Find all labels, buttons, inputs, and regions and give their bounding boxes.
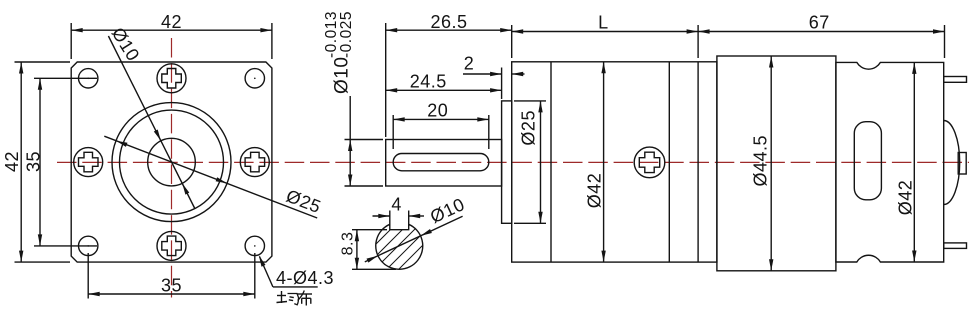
flange screw 1 <box>157 64 186 93</box>
gearbox screw <box>634 147 665 178</box>
svg-text:42: 42 <box>161 12 182 32</box>
dim D10tol text <box>323 11 355 94</box>
centerline horizontal main <box>57 161 969 163</box>
dim 67 arrows <box>698 29 710 33</box>
end cap dome <box>944 121 960 205</box>
dim D10 arrows <box>154 130 161 141</box>
dim 42 top extension lines <box>70 23 72 59</box>
dim 26.5 arrows <box>386 28 398 32</box>
dim D44.5 line <box>770 56 772 271</box>
dim 4 arrows <box>378 214 390 218</box>
svg-text:2: 2 <box>464 54 475 74</box>
dim D10 detail arrows <box>367 256 378 263</box>
dim 42 left line <box>20 62 22 262</box>
dim 35 bottom arrows <box>88 292 100 296</box>
motor can outline <box>836 62 944 262</box>
dim D42 motor line <box>913 62 915 262</box>
svg-text:-0.025: -0.025 <box>338 11 355 58</box>
dim 2 line <box>463 73 502 75</box>
dim 24.5 line <box>386 89 502 91</box>
dim 35 bottom line <box>88 293 255 295</box>
dim 8.3 arrows <box>355 230 359 242</box>
dim L extension line <box>697 25 699 58</box>
svg-text:35: 35 <box>161 276 182 296</box>
mounting hole 4 <box>245 236 264 255</box>
leader 4-D4.3 arrow <box>259 255 266 266</box>
svg-text:L: L <box>598 13 609 33</box>
dim 67 line <box>698 31 944 33</box>
gearbox section line 3 <box>697 62 699 262</box>
dim 42 left extension lines <box>15 61 71 63</box>
shaft body <box>386 140 502 187</box>
flange outline <box>71 62 272 262</box>
leader junbu glyph strokes <box>281 291 283 303</box>
dim 4 extension lines <box>389 211 391 227</box>
dim 42 left arrows <box>19 62 23 74</box>
svg-text:Ø10: Ø10 <box>332 57 353 94</box>
dim 26.5 line <box>386 29 512 31</box>
dim D42 gearbox line <box>603 62 605 262</box>
terminal bottom <box>944 243 967 249</box>
centerline vertical flange <box>171 38 173 298</box>
motor housing D44.5 <box>717 56 836 271</box>
flange ring circle <box>120 110 224 214</box>
dim 24.5 extension line <box>501 68 503 100</box>
mounting hole 3 <box>79 236 98 255</box>
svg-text:8.3: 8.3 <box>340 232 357 256</box>
flange bore D10 <box>148 138 196 186</box>
dim 20 line <box>393 118 489 120</box>
dim D10 diagonal line <box>108 36 194 209</box>
svg-text:35: 35 <box>24 151 44 172</box>
dim D10tol arrows <box>348 140 352 152</box>
dim 24.5 arrows <box>386 88 398 92</box>
dim 8.3 extension lines <box>352 229 387 231</box>
gearbox section line 2 <box>668 62 670 262</box>
mounting hole 2 <box>245 69 264 88</box>
dim D25 boss arrows <box>538 101 542 113</box>
dim D42 gearbox arrows <box>601 62 605 74</box>
svg-text:4: 4 <box>391 195 402 215</box>
dim 20 extension lines <box>392 115 394 149</box>
flange screw 4 <box>240 148 269 177</box>
dim 8.3 line <box>356 230 358 270</box>
svg-text:20: 20 <box>427 100 448 120</box>
svg-text:Ø25: Ø25 <box>519 110 539 146</box>
svg-text:Ø42: Ø42 <box>585 173 605 209</box>
end cap bearing boss <box>958 153 966 175</box>
dim 20 arrows <box>393 117 405 121</box>
svg-text:67: 67 <box>809 13 830 33</box>
flange screw 3 <box>74 148 103 177</box>
shaft boss D25 front <box>502 101 512 223</box>
svg-text:Ø42: Ø42 <box>896 180 916 216</box>
dim 67 extension line <box>944 25 946 58</box>
motor vent slot <box>854 122 881 200</box>
svg-text:24.5: 24.5 <box>410 71 447 91</box>
gearbox body <box>512 62 717 262</box>
dim L arrows <box>512 29 524 33</box>
dim 42 top arrows <box>71 28 83 32</box>
dim D25 arrows <box>116 141 128 147</box>
gearbox section line 1 <box>550 62 552 262</box>
shaft flat slot <box>393 154 489 171</box>
mounting hole 1 <box>79 69 98 88</box>
terminal top <box>944 77 967 83</box>
flange boss circle D25 <box>112 103 231 222</box>
dim D25 boss extension lines <box>514 100 546 102</box>
svg-text:42: 42 <box>2 151 22 172</box>
dim D10 detail line <box>365 216 463 262</box>
svg-text:4-Ø4.3: 4-Ø4.3 <box>276 268 334 288</box>
dim D42 motor arrows <box>912 62 916 74</box>
dim D25 diagonal line <box>104 136 317 218</box>
svg-text:Ø44.5: Ø44.5 <box>751 135 771 187</box>
dim 42 top line <box>71 29 272 31</box>
dim 35 left line <box>39 78 41 246</box>
dim D10tol line <box>349 96 351 186</box>
dim 35 left arrows <box>38 78 42 90</box>
dim 35 bottom extension lines <box>87 253 89 299</box>
svg-text:26.5: 26.5 <box>430 12 467 32</box>
dim 2 arrows <box>490 72 502 76</box>
dim D44.5 arrows <box>769 56 773 68</box>
dim L line <box>512 31 698 33</box>
flange screw 2 <box>157 231 186 260</box>
dim D10tol extension lines <box>345 139 384 141</box>
leader 4-D4.3 line <box>260 257 273 287</box>
dim 26.5 extension lines <box>385 23 387 137</box>
dim 35 left extension lines <box>34 77 97 79</box>
dim D25 boss line <box>540 101 542 223</box>
dim 4 line <box>373 215 390 217</box>
